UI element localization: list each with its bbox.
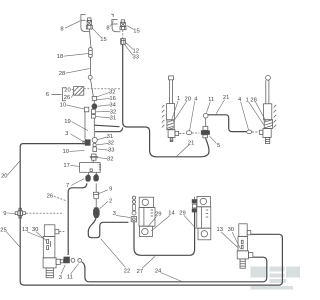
svg-text:11: 11: [67, 275, 73, 281]
svg-text:26: 26: [47, 194, 53, 200]
svg-text:32: 32: [108, 141, 114, 147]
svg-text:30: 30: [228, 227, 234, 233]
svg-text:28: 28: [250, 97, 256, 103]
svg-text:33: 33: [108, 148, 114, 154]
svg-text:31: 31: [110, 116, 116, 122]
svg-text:7: 7: [66, 183, 69, 189]
svg-text:18: 18: [57, 54, 63, 60]
svg-text:5: 5: [217, 143, 220, 149]
svg-text:16: 16: [109, 96, 115, 102]
svg-text:34: 34: [109, 102, 116, 108]
svg-text:1: 1: [177, 96, 180, 102]
svg-text:20: 20: [64, 87, 70, 93]
svg-text:17: 17: [63, 163, 69, 169]
svg-text:32: 32: [110, 109, 116, 115]
svg-text:24: 24: [155, 269, 162, 275]
svg-text:9: 9: [3, 211, 6, 217]
svg-text:19: 19: [64, 119, 70, 125]
svg-text:21: 21: [223, 95, 229, 101]
svg-text:14: 14: [168, 210, 175, 216]
svg-text:1: 1: [245, 97, 248, 103]
svg-text:13: 13: [22, 227, 28, 233]
svg-text:30: 30: [32, 227, 38, 233]
svg-text:15: 15: [100, 37, 106, 43]
svg-text:2: 2: [109, 198, 112, 204]
svg-text:3: 3: [113, 211, 116, 217]
svg-text:32: 32: [109, 89, 115, 95]
svg-text:15: 15: [133, 28, 139, 34]
svg-text:3: 3: [65, 131, 68, 137]
svg-text:31: 31: [107, 134, 113, 140]
svg-text:6: 6: [46, 92, 49, 98]
svg-text:20: 20: [1, 174, 7, 180]
svg-text:8: 8: [60, 26, 63, 32]
svg-text:20: 20: [184, 96, 190, 102]
svg-text:3: 3: [59, 275, 62, 281]
svg-text:9: 9: [109, 187, 112, 193]
svg-text:33: 33: [132, 54, 138, 60]
svg-text:10: 10: [60, 103, 66, 109]
svg-text:29: 29: [155, 211, 161, 217]
svg-text:29: 29: [179, 210, 185, 216]
svg-text:22: 22: [124, 268, 130, 274]
svg-text:13: 13: [216, 227, 222, 233]
svg-text:10: 10: [62, 149, 68, 155]
svg-text:28: 28: [59, 71, 65, 77]
svg-text:32: 32: [107, 157, 113, 163]
svg-text:26: 26: [64, 95, 70, 101]
svg-text:11: 11: [208, 97, 214, 103]
svg-text:25: 25: [0, 228, 6, 234]
svg-text:8: 8: [106, 25, 109, 31]
svg-text:27: 27: [137, 269, 143, 275]
svg-text:21: 21: [188, 140, 194, 146]
